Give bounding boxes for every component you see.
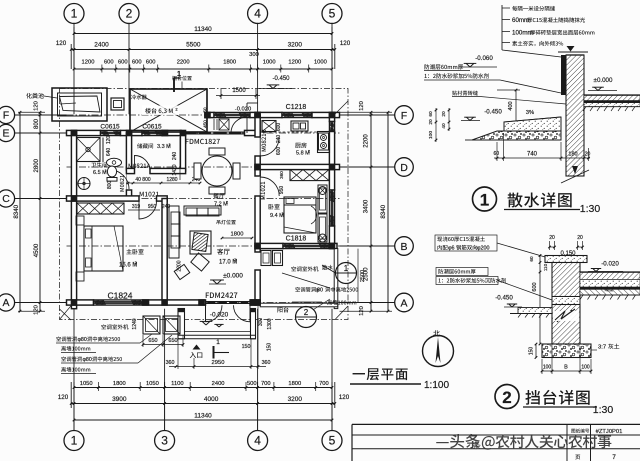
door label M0821B (262, 130, 267, 152)
svg-text:2800: 2800 (34, 158, 40, 172)
bathroom partition (102, 138, 104, 163)
svg-text:50: 50 (203, 107, 208, 113)
svg-text:1280: 1280 (166, 177, 177, 183)
d2 level -0.020 (588, 261, 623, 272)
svg-text:4: 4 (254, 434, 261, 448)
shelf position label (172, 76, 192, 89)
d2 level 0.150 (547, 251, 576, 260)
d2 column upper (552, 263, 580, 297)
svg-text:450: 450 (203, 120, 208, 128)
svg-text:700: 700 (261, 381, 271, 387)
axis F leader right (340, 114, 395, 116)
svg-text:±0.000: ±0.000 (594, 77, 613, 84)
d1 level -0.450 (461, 109, 502, 121)
wall storage south (126, 168, 185, 173)
svg-text:φ80: φ80 (83, 357, 92, 363)
svg-text:2400: 2400 (212, 381, 225, 387)
axis line E (67, 132, 340, 134)
door label FDM2427 (206, 292, 238, 298)
axis bubble D right (395, 158, 414, 177)
d2 top dims (548, 235, 584, 250)
interior dim 640 120 (106, 136, 112, 157)
d2 dim 150 (529, 343, 538, 359)
svg-text:3900: 3900 (112, 396, 127, 403)
svg-text:640: 640 (106, 148, 112, 157)
title block text (571, 429, 622, 461)
bedroom2 label (269, 204, 285, 219)
top dim row overall 11340 (73, 26, 334, 69)
svg-text:-0.450: -0.450 (272, 76, 290, 82)
master wardrobe row (77, 203, 124, 214)
axis A leader left (15, 302, 67, 304)
svg-text:C1218: C1218 (286, 104, 307, 111)
master bed (84, 226, 123, 271)
svg-text:2: 2 (226, 201, 228, 205)
column 13 (329, 243, 336, 250)
sw ac label (101, 324, 128, 329)
water heater box (111, 98, 124, 110)
svg-text:4000: 4000 (204, 396, 219, 403)
svg-text:2: 2 (304, 308, 309, 317)
svg-text:1240: 1240 (132, 318, 138, 329)
wall east axis5 a (329, 112, 334, 121)
armchair diag 2 (174, 264, 190, 279)
svg-text:φ6: φ6 (448, 246, 455, 252)
d1 title (473, 187, 601, 215)
balcony AC unit (261, 251, 283, 266)
door label M1021 C wall (140, 192, 159, 197)
axis 4 extension top (257, 23, 259, 115)
watermark (436, 434, 611, 450)
porch dim 1500 (216, 88, 260, 99)
svg-text:600: 600 (146, 60, 156, 66)
axis bubble A right (395, 293, 414, 312)
axis bubble A left (0, 294, 15, 311)
svg-text:240: 240 (172, 152, 178, 161)
porch side right (251, 309, 256, 339)
svg-text:1:30: 1:30 (580, 203, 601, 215)
apron dashed outline (60, 89, 349, 320)
master nightstand top (76, 216, 84, 225)
svg-text:60mm: 60mm (512, 17, 529, 24)
sw dim 650 650 (142, 335, 185, 347)
svg-text:600: 600 (532, 282, 538, 291)
axis 2 extension top (128, 23, 130, 115)
door FDMC1827 threshold (181, 132, 245, 135)
svg-text:2: 2 (234, 258, 236, 262)
svg-text:400: 400 (508, 101, 514, 110)
axis A leader right (340, 302, 395, 304)
d1 note 1 (502, 6, 555, 11)
terrace label (142, 106, 179, 116)
svg-text:700: 700 (319, 381, 329, 387)
svg-text:φ80: φ80 (78, 337, 87, 343)
master bedroom label (119, 249, 144, 269)
window label C0615 right (142, 124, 162, 131)
d2 footing label (591, 344, 619, 351)
svg-text:5: 5 (329, 7, 336, 21)
axis bubble 5 top (322, 4, 342, 24)
svg-text:E: E (2, 128, 9, 140)
svg-text:650: 650 (168, 338, 177, 344)
wall C axis b (157, 196, 168, 201)
porch door leaf left (206, 305, 223, 322)
svg-text:500: 500 (247, 381, 257, 387)
wall A axis b (143, 300, 206, 305)
d1 wall cap mark (558, 46, 588, 52)
svg-text:740: 740 (527, 152, 538, 158)
porch section mark 1 (214, 339, 230, 359)
door M0821A arc (135, 155, 151, 171)
d2 damp band (552, 297, 580, 305)
bedroom2 east furniture (318, 185, 327, 242)
title block frame (352, 424, 640, 461)
entrance label (190, 352, 203, 358)
svg-text:40: 40 (441, 123, 447, 129)
svg-text:360: 360 (279, 171, 284, 179)
svg-text:3%: 3% (526, 110, 534, 116)
svg-text:1:30: 1:30 (593, 404, 614, 416)
svg-text:120: 120 (34, 101, 40, 111)
door M1021 arc (139, 201, 157, 219)
kitchen label (295, 142, 310, 156)
wall E axis mid segment (121, 130, 143, 135)
column 2 (162, 130, 169, 137)
wall A axis c (250, 300, 260, 305)
svg-text:300: 300 (249, 52, 259, 58)
svg-text:319: 319 (132, 204, 141, 210)
svg-text:150: 150 (267, 343, 273, 352)
bottom dim row overall 11340 (73, 382, 334, 430)
kitchen dim col (276, 123, 282, 156)
d1 wall (561, 55, 584, 176)
window east bedroom (329, 190, 334, 226)
svg-text:2: 2 (282, 212, 284, 216)
svg-text:3:7: 3:7 (598, 345, 606, 351)
bedroom2 plant bottom (319, 234, 327, 242)
svg-text:2200: 2200 (177, 260, 183, 271)
column 0 (71, 130, 78, 137)
d1 leader spine (502, 5, 561, 57)
wall axis3 (162, 199, 167, 303)
svg-text:20: 20 (428, 119, 434, 125)
svg-text:C1824: C1824 (107, 291, 132, 301)
svg-text:1000: 1000 (263, 60, 276, 66)
d2 cap slab (545, 256, 587, 263)
kitchen sink (291, 121, 308, 131)
balcony leader lines (282, 273, 330, 302)
svg-text:1:100: 1:100 (424, 380, 449, 391)
porch level (200, 312, 229, 328)
svg-text:F: F (3, 110, 9, 122)
svg-text:A: A (2, 297, 9, 309)
sofa back top (184, 206, 221, 216)
storage label (137, 143, 171, 150)
svg-text:1: 1 (177, 71, 181, 78)
svg-text:950: 950 (148, 204, 157, 210)
wall F vestibule segment east (250, 112, 260, 117)
sw note 1 (56, 334, 152, 343)
bedroom2 bed (284, 197, 317, 233)
wall F kitchen segment2 (312, 112, 340, 117)
axis bubble E left (0, 124, 15, 141)
sofa left (169, 206, 180, 258)
sw note 3 (61, 335, 172, 363)
axis bubble B right (395, 237, 414, 256)
svg-text:1800: 1800 (223, 60, 236, 66)
svg-text:2200: 2200 (364, 134, 370, 148)
wall F vestibule segment (205, 112, 214, 117)
wall C axis a (67, 196, 140, 201)
axis 4 extension bottom (257, 309, 259, 431)
level -0.450 top right (259, 76, 292, 89)
corner apron diagonal SE (336, 306, 349, 319)
axis bubble 2 top (119, 4, 139, 24)
svg-text:600: 600 (104, 60, 114, 66)
svg-text:600: 600 (276, 147, 282, 156)
svg-text:A: A (400, 297, 407, 309)
stove (319, 133, 329, 150)
washing machine (78, 178, 90, 190)
porch side left (178, 309, 185, 339)
svg-text:2: 2 (169, 143, 171, 147)
d2 dim 600 (529, 254, 548, 345)
svg-text:20: 20 (441, 111, 447, 117)
window C1218 (282, 112, 313, 117)
door label M0821A (129, 164, 151, 169)
svg-text:-0.450: -0.450 (495, 295, 513, 302)
column 5 (254, 112, 261, 119)
axis E leader left (15, 132, 67, 134)
balcony note 2500 (295, 287, 358, 294)
door M1021b arc (260, 177, 279, 196)
svg-text:600: 600 (276, 123, 282, 132)
svg-text:20: 20 (585, 152, 591, 158)
d1 interior level (588, 77, 617, 91)
sw ac unit 2 (163, 316, 180, 334)
svg-text:20: 20 (549, 235, 555, 241)
interior dim 800 (107, 181, 113, 190)
porch dim 2950 (166, 306, 271, 369)
axis bubble F left (0, 106, 15, 123)
svg-text:60: 60 (428, 111, 434, 117)
svg-text:2200: 2200 (177, 60, 190, 66)
top dim row minor (73, 52, 334, 73)
interior dim col 240 1420 (172, 137, 180, 180)
svg-text:1800: 1800 (231, 232, 244, 238)
porch steps (178, 332, 256, 339)
left dim col overall 8340 (13, 111, 21, 313)
door M0821 opening (110, 170, 129, 190)
svg-text:3200: 3200 (288, 396, 303, 403)
svg-text:2: 2 (135, 261, 137, 265)
svg-text:C0615: C0615 (100, 124, 120, 131)
fridge (262, 121, 276, 132)
axis D leader right (340, 166, 395, 168)
d1 note 4 (502, 41, 563, 46)
svg-text:B: B (400, 241, 407, 253)
svg-text:±0.000: ±0.000 (223, 273, 243, 280)
column 12 (254, 243, 261, 250)
svg-text:800: 800 (34, 118, 40, 129)
washbasin (107, 158, 122, 166)
wall B axis b (330, 243, 337, 248)
svg-text:-0.020: -0.020 (210, 312, 229, 319)
detail mark 1 (322, 263, 357, 284)
balcony ac label (291, 266, 318, 271)
septic tank (52, 88, 107, 121)
interior dim 319 950 (128, 204, 170, 210)
svg-text:7: 7 (612, 454, 616, 461)
d2 note top (435, 235, 552, 259)
water heater label (131, 95, 147, 100)
d2 floor right (580, 272, 640, 300)
balcony note wall (327, 300, 356, 305)
porch door leaf right (234, 305, 251, 322)
column 11 (250, 299, 257, 306)
axis line C (67, 198, 340, 200)
sw ac dim 1240 (132, 318, 138, 329)
window C0615 right (142, 130, 162, 135)
svg-text:360: 360 (262, 360, 271, 366)
svg-text:3: 3 (161, 434, 168, 448)
wall E axis segment 3 (162, 130, 181, 135)
plan title (350, 368, 449, 391)
svg-text:3400: 3400 (364, 199, 370, 213)
door label M0821 (120, 175, 124, 191)
svg-text:φ: φ (316, 288, 320, 294)
svg-text:-0.060: -0.060 (475, 55, 493, 62)
axis bubble 1 top (64, 4, 84, 24)
kitchen counter line (260, 131, 317, 133)
right dim col overall 8340 (380, 111, 389, 313)
axis 3 extension bottom (164, 309, 166, 431)
svg-text:120: 120 (58, 394, 69, 401)
svg-text:120: 120 (340, 40, 351, 47)
d1 wall break bottom (561, 166, 589, 183)
left dim col segments (18, 101, 45, 315)
section cut 1 top (174, 71, 181, 92)
dining door label FDMC1827 (186, 139, 220, 144)
sw note 2 (61, 346, 96, 353)
svg-text:-0.020: -0.020 (601, 261, 619, 268)
svg-text:11340: 11340 (194, 413, 212, 420)
vestibule dim 450 (203, 107, 208, 128)
svg-text:4: 4 (254, 7, 261, 21)
axis 1 extension bottom (73, 309, 75, 431)
svg-text:1300: 1300 (267, 318, 273, 329)
dining table (194, 148, 240, 194)
living dim 1800 (221, 232, 254, 240)
column 7 (71, 195, 78, 202)
svg-text:11340: 11340 (194, 26, 212, 33)
svg-text:C1818: C1818 (286, 236, 307, 243)
svg-text:1: 1 (216, 339, 220, 346)
axis 5 extension top (331, 23, 333, 115)
axis bubble 4 top (248, 4, 268, 24)
svg-text:20: 20 (577, 235, 583, 241)
svg-text:3200: 3200 (288, 42, 303, 49)
living label (217, 248, 237, 265)
door FDM2427 opening (206, 301, 251, 304)
svg-text:8340: 8340 (13, 204, 20, 218)
d1 note brick (452, 91, 566, 104)
door M0821B arc (260, 137, 279, 156)
svg-text:5: 5 (329, 434, 336, 448)
wall axis2 (126, 133, 131, 170)
interior dim row hall (126, 177, 201, 184)
svg-text:1500: 1500 (232, 88, 246, 94)
wall storage east (180, 133, 185, 171)
svg-text:950: 950 (279, 186, 285, 195)
wall axis2 b (126, 190, 131, 199)
bottom dim row minor (73, 381, 334, 391)
window label C1824 (107, 291, 132, 301)
svg-text:1: 1 (344, 264, 349, 273)
svg-text:1050: 1050 (146, 381, 159, 387)
svg-text:1000: 1000 (314, 60, 327, 66)
d1 note 2 (502, 17, 585, 24)
column 1 (126, 130, 133, 137)
svg-text:120: 120 (34, 305, 40, 315)
living level (209, 273, 243, 285)
armchair diag 1 (191, 253, 209, 271)
balcony parapet south (260, 303, 338, 307)
svg-text:-0.450: -0.450 (484, 109, 502, 116)
dim 1300 balcony (258, 318, 273, 330)
svg-text:B: B (564, 365, 568, 371)
svg-text:150: 150 (242, 344, 251, 350)
svg-text:120: 120 (359, 101, 365, 111)
window on F vestibule (214, 112, 250, 117)
kitchen counter east (318, 132, 330, 153)
axis line B (67, 245, 340, 247)
axis line D (67, 166, 340, 168)
column 8 (71, 299, 78, 306)
wall axis4 b (255, 156, 260, 176)
svg-text:1: 1 (480, 191, 489, 210)
svg-text:1100: 1100 (171, 381, 183, 387)
living dim 2200 (177, 260, 183, 271)
svg-text:1800: 1800 (288, 381, 301, 387)
svg-text:2950: 2950 (212, 360, 225, 366)
master nightstand bottom (76, 272, 84, 281)
wall east axis5 b (329, 132, 334, 191)
axis bubble 1 bottom (64, 431, 84, 451)
column 4 (204, 112, 211, 119)
svg-text:600: 600 (132, 60, 142, 66)
svg-text:1: 1 (71, 434, 78, 448)
svg-text:120: 120 (339, 394, 350, 401)
d2 note damp (436, 268, 488, 276)
axis line F (67, 114, 340, 116)
column X3A (161, 299, 168, 306)
wall west axis1 (71, 130, 76, 308)
svg-text:100: 100 (581, 365, 590, 371)
shower box (77, 138, 101, 162)
wall axis4 a (255, 115, 260, 137)
svg-text:100: 100 (543, 365, 552, 371)
wall B axis a (255, 243, 283, 248)
d2 apron left (510, 308, 552, 318)
svg-text:D: D (400, 162, 408, 174)
svg-text:120: 120 (106, 136, 112, 145)
svg-text:2: 2 (126, 7, 133, 21)
right dim col segments (340, 101, 393, 316)
sw ac unit 1 (143, 316, 160, 334)
svg-text:1050: 1050 (80, 381, 93, 387)
wall E axis west segment (67, 130, 101, 135)
